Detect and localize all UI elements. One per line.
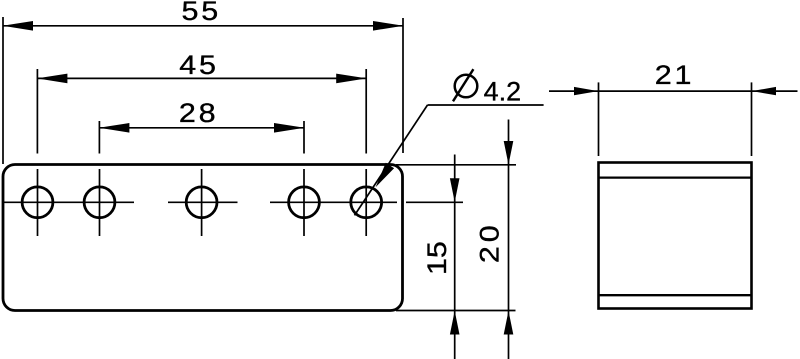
dim 55 arrow right [373, 21, 404, 31]
dim 55 extension left [2, 17, 4, 164]
dim 21 extension right [751, 82, 753, 156]
dim 20 line [508, 120, 510, 359]
horizontal centerline holes 4-5 [270, 201, 397, 203]
leader diagonal line [355, 105, 428, 215]
dim 20 arrow top [504, 141, 514, 165]
svg-text:45: 45 [179, 51, 216, 81]
dim 21 arrow left outside [574, 87, 598, 95]
dim 28 extension right [303, 121, 305, 154]
hole 2 vertical centerline [99, 169, 101, 236]
dim 21 arrow right outside [752, 87, 776, 95]
dim 45 arrow left [37, 74, 68, 84]
dim 20 text [475, 225, 505, 263]
hole 4 [289, 187, 320, 218]
hole 1 vertical centerline [37, 169, 39, 236]
hole size text 4.2 [484, 77, 522, 107]
dim 21 text [655, 61, 692, 91]
centerline extension for 15 dim [406, 201, 463, 203]
top edge extension line [396, 164, 516, 166]
dim 15 line [454, 155, 456, 359]
dim 45 text [179, 51, 216, 81]
hole 3 [186, 187, 217, 218]
hole 3 vertical centerline [201, 169, 203, 236]
hole 5 vertical centerline [365, 169, 367, 236]
leader horizontal line [428, 104, 544, 106]
hole 2 [84, 187, 115, 218]
dim 21 line [549, 90, 798, 92]
plate outline [3, 165, 403, 311]
dim 20 arrow bottom [504, 311, 514, 335]
hole 1 [22, 187, 53, 218]
dim 45 extension right [365, 69, 367, 154]
dim 15 arrow bottom [450, 311, 460, 335]
dim 55 text [182, 0, 219, 26]
svg-text:55: 55 [182, 0, 219, 26]
svg-text:4.2: 4.2 [484, 77, 522, 107]
diameter symbol slash [453, 69, 473, 101]
dim 55 arrow left [3, 21, 34, 31]
dim 45 extension left [36, 69, 38, 154]
dim 45 line [37, 77, 366, 79]
dim 28 text [179, 98, 216, 128]
dim 28 line [99, 127, 304, 129]
dim 45 arrow right [336, 74, 367, 84]
side view lower inner line [599, 294, 751, 296]
dim 55 extension right [402, 18, 404, 153]
bottom edge extension line [396, 310, 516, 312]
dim 15 text [423, 241, 453, 275]
side view upper inner line [599, 176, 751, 178]
diameter symbol circle [455, 75, 478, 98]
svg-text:15: 15 [423, 241, 453, 275]
dim 15 arrow top [450, 178, 460, 202]
dim 28 extension left [98, 121, 100, 154]
dim 21 extension left [598, 82, 600, 156]
dim 55 line [3, 25, 403, 27]
hole 5 [351, 187, 382, 218]
side view outline [599, 163, 752, 309]
svg-text:20: 20 [475, 225, 505, 263]
dim 28 arrow right [274, 123, 305, 133]
svg-text:28: 28 [179, 98, 216, 128]
hole 4 vertical centerline [303, 169, 305, 236]
horizontal centerline hole 3 [168, 201, 238, 203]
leader arrowhead [376, 163, 395, 188]
horizontal centerline holes 1-2 [4, 201, 134, 203]
svg-text:21: 21 [655, 61, 692, 91]
dim 28 arrow left [99, 123, 129, 133]
